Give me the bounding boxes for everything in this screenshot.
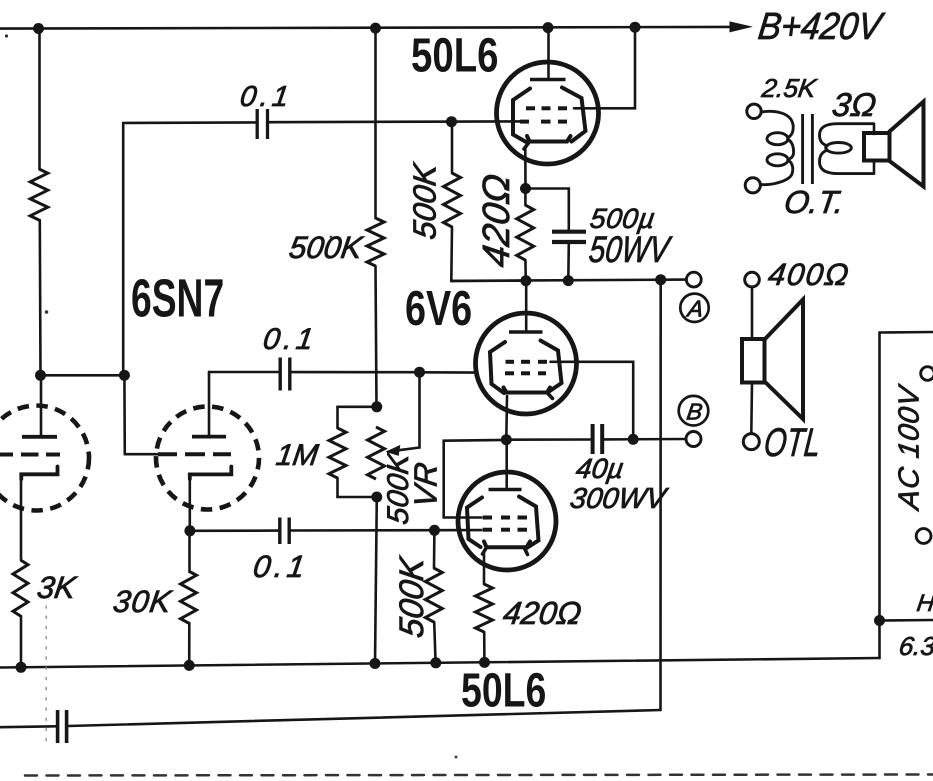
terminal B output [686, 432, 701, 447]
terminal OT primary top [747, 104, 761, 118]
tube V3 6V6 envelope [476, 313, 577, 414]
tube V1a 6SN7 envelope (dashed) [0, 406, 89, 511]
wire 30K lower lead [188, 623, 191, 665]
wire 1M loop top [338, 405, 377, 408]
speck 4 [455, 756, 458, 759]
node dot cathode V1b [184, 525, 195, 536]
terminal AC plug upper [921, 367, 933, 381]
svg-text:OTL: OTL [762, 421, 823, 466]
grid g1 V2 (dashes row2) [520, 120, 529, 124]
tube V2 50L6 envelope [497, 62, 599, 164]
node dot top rail x635 [630, 22, 641, 33]
wire V2 plate lead [547, 28, 550, 77]
terminal OTL bottom [743, 434, 759, 450]
node dot top rail x38 [33, 23, 44, 34]
node dot link left [35, 370, 46, 381]
svg-text:0.1: 0.1 [251, 549, 311, 584]
wire V4 plate lead [505, 440, 508, 487]
svg-text:420Ω: 420Ω [475, 171, 518, 269]
wire 500K grid2 upper [433, 530, 436, 568]
resistor R 30K [181, 571, 197, 623]
potentiometer VR 500K [368, 427, 385, 479]
wire 420ohm lower lead [524, 260, 527, 281]
wire OT secondary to speaker [873, 124, 876, 134]
node dot V3 cathode junction [501, 434, 512, 445]
wire VR bottom to ground [375, 497, 377, 664]
svg-text:3K: 3K [35, 570, 79, 605]
capacitor C1 0.1 plates [256, 109, 259, 139]
wire node-B left + corner to lower g2 [444, 440, 507, 518]
resistor R 500K grid1 [444, 173, 461, 227]
tube V1b 6SN7 envelope (dashed) [156, 407, 259, 510]
label circled B [679, 396, 709, 426]
wire VR wiper [399, 372, 420, 450]
svg-text:420Ω: 420Ω [501, 595, 584, 631]
svg-text:500K: 500K [287, 230, 365, 265]
wire link y375 [41, 374, 125, 377]
wire bottom line left [0, 725, 56, 729]
plate V2 [530, 78, 566, 82]
capacitor C2 0.1 plates [279, 358, 282, 391]
wire 500K grid1 lower + corner [451, 227, 526, 281]
wire V1b plate lead [208, 372, 211, 435]
beam plates V4 [467, 498, 482, 548]
svg-text:A: A [684, 296, 705, 322]
grid g2 V3 (dashes row1) [506, 360, 515, 364]
plate V3 [509, 330, 543, 334]
svg-text:2.5K: 2.5K [759, 73, 819, 103]
wire node-A bus [451, 280, 686, 281]
crease dotted line [45, 606, 47, 748]
wire 420ohm bottom lower lead [483, 632, 486, 664]
grid g1 V3 (dashes row2) [505, 371, 514, 375]
node dot A bus x526 [520, 275, 531, 286]
speck 2 [45, 310, 49, 314]
resistor plate-load R (unlabeled) [30, 169, 48, 220]
resistor R 1M [329, 428, 346, 478]
resistor R 3K [13, 560, 28, 616]
plate V4 [489, 488, 522, 492]
resistor R 420ohm bottom [476, 584, 493, 632]
wire 40u to terminal B [604, 438, 686, 441]
speck 3 [330, 236, 333, 239]
resistor R 420ohm top [517, 205, 534, 260]
grid V1a (dashed) [0, 453, 13, 457]
wire V2 cathode lead [524, 148, 527, 189]
node dot A bus x568 [563, 275, 574, 286]
node dot A bus x661 [655, 274, 666, 285]
label circled A [680, 294, 708, 322]
wire V3 cathode lead [505, 396, 508, 440]
speck 1 [5, 34, 8, 37]
wire V3 plate lead [525, 281, 528, 330]
wire plate V1b to cap2 [209, 371, 279, 374]
capacitor C4 500u plates [552, 230, 586, 234]
wire ground bus [0, 658, 880, 668]
svg-text:50L6: 50L6 [461, 664, 546, 718]
svg-text:VR: VR [408, 460, 444, 509]
grid g1 V4 (dashes row2) [483, 528, 493, 532]
wire V1a plate lead [40, 375, 43, 434]
wire 1M upper lead [336, 407, 339, 428]
svg-text:H: H [915, 590, 933, 617]
wire left plate-load lower lead [38, 220, 41, 375]
svg-text:500K: 500K [407, 160, 443, 241]
capacitor C5 40u plates [591, 424, 595, 454]
tube V4 50L6 envelope [458, 472, 556, 570]
wire OTL bottom lead [750, 383, 753, 434]
wire 420ohm upper lead [524, 189, 527, 206]
wire bottom line right [68, 710, 660, 726]
wire OTL top lead [751, 287, 754, 339]
wire cap3 to lower grid [291, 529, 481, 532]
bottom page dashed rule [25, 775, 933, 776]
wire AC box left edge [878, 333, 881, 659]
arrow B+ terminal [730, 21, 754, 32]
node dot 6V6 grid [414, 367, 425, 378]
inductor OT secondary coil [820, 124, 875, 147]
node dot gnd 500K [430, 657, 441, 668]
speaker2 horn [765, 300, 804, 420]
wire cathode V1b to cap3 [190, 529, 278, 532]
node dot g2 junction [628, 434, 639, 445]
wire 500u bottom lead [567, 244, 570, 281]
svg-text:30K: 30K [111, 584, 174, 619]
cathode V4 [484, 542, 530, 548]
wire V4 cathode lead [483, 553, 486, 584]
grid g2 V4 (dashes row1) [483, 516, 493, 520]
svg-text:O.T.: O.T. [782, 184, 846, 220]
wire cap2 to VR node [292, 371, 420, 374]
plate V1b [192, 435, 226, 439]
wire 500K dropper lower [376, 266, 377, 407]
capacitor C6 feedback plates [56, 710, 60, 743]
speaker1 driver [864, 133, 890, 161]
wire 500K grid2 lower [434, 622, 435, 663]
svg-text:0.1: 0.1 [261, 323, 319, 356]
beam plates V3 [490, 342, 505, 393]
wire 30K upper lead [188, 531, 191, 571]
node dot V2 cathode [520, 183, 531, 194]
node dot top rail x547 [543, 22, 554, 33]
grid V1b (dashed) [158, 452, 177, 456]
svg-text:B: B [685, 399, 704, 425]
wire V1a cathode lead [20, 478, 23, 560]
svg-text:0.1: 0.1 [238, 81, 295, 113]
wire 3K lower lead [20, 616, 23, 667]
plate V1a [22, 435, 57, 439]
wire V1b cathode lead [189, 478, 192, 531]
svg-text:6.3V: 6.3V [897, 631, 933, 661]
cathode V1a [21, 467, 57, 480]
wire node-B right [506, 438, 590, 441]
wire 500u top lead [526, 189, 569, 231]
terminal OTL top [745, 272, 760, 287]
cathode V3 [504, 388, 551, 393]
speaker1 horn [890, 102, 924, 187]
node dot grid-R 50L6 top [446, 116, 457, 127]
resistor R 500K grid2 [425, 568, 442, 622]
arrow VR wiper head [386, 445, 401, 456]
svg-text:6V6: 6V6 [405, 281, 472, 336]
svg-text:1M: 1M [274, 439, 321, 472]
grid g2 V2 (dashes row1) [526, 106, 535, 110]
node dot gnd VR [370, 658, 381, 669]
node dot gnd 420ohm [479, 657, 490, 668]
wire AC box top edge [880, 331, 933, 334]
wire g2 V3 right [551, 362, 634, 440]
speaker2 driver [742, 339, 765, 383]
capacitor C3 0.1 plates [278, 518, 281, 545]
wire 1M loop bottom [338, 496, 377, 499]
svg-text:400Ω: 400Ω [766, 257, 852, 292]
wire heater line [880, 619, 933, 622]
node dot link right [119, 370, 130, 381]
wire g2 V2 to B+ [574, 27, 635, 108]
svg-text:AC 100V: AC 100V [894, 382, 926, 513]
beam plates V2 [513, 89, 530, 143]
wire 0.1 cap1 right [269, 120, 520, 123]
svg-text:3Ω: 3Ω [830, 87, 879, 124]
terminal AC plug lower [916, 529, 931, 544]
wire 1M lower lead [336, 478, 339, 497]
cathode V2 [527, 136, 571, 142]
node dot VR top [371, 401, 382, 412]
svg-text:40µ: 40µ [574, 453, 626, 484]
wire V1b grid feed [123, 375, 126, 454]
wire 6V6 grid line [420, 371, 478, 374]
node dot lower 50L6 grid [429, 525, 440, 536]
svg-text:6SN7: 6SN7 [131, 268, 224, 329]
wire 500K grid1 upper [451, 122, 454, 173]
node dot VR bottom [371, 492, 382, 503]
node dot heater tap [874, 615, 885, 626]
node dot top rail x375 [370, 23, 381, 34]
svg-text:500K: 500K [393, 553, 431, 640]
terminal OT primary bottom [745, 178, 760, 193]
wire left plate-load upper lead [38, 29, 41, 170]
node dot gnd 3K [16, 662, 27, 673]
cathode V1b [190, 467, 232, 480]
svg-text:300WV: 300WV [568, 483, 670, 515]
wire node-A down line [659, 280, 662, 710]
node dot gnd 30K [184, 660, 195, 671]
svg-text:50WV: 50WV [587, 230, 673, 271]
wire 0.1 cap1 left + corner [123, 122, 255, 375]
svg-text:B+420V: B+420V [756, 4, 888, 47]
inductor OT primary coil [762, 111, 794, 138]
wire 500K dropper upper [374, 28, 377, 218]
wire top B+ rail [0, 27, 731, 29]
core OT [801, 114, 804, 184]
terminal A output [686, 272, 701, 287]
resistor R 500K dropper [367, 218, 384, 266]
svg-text:50L6: 50L6 [411, 30, 499, 83]
